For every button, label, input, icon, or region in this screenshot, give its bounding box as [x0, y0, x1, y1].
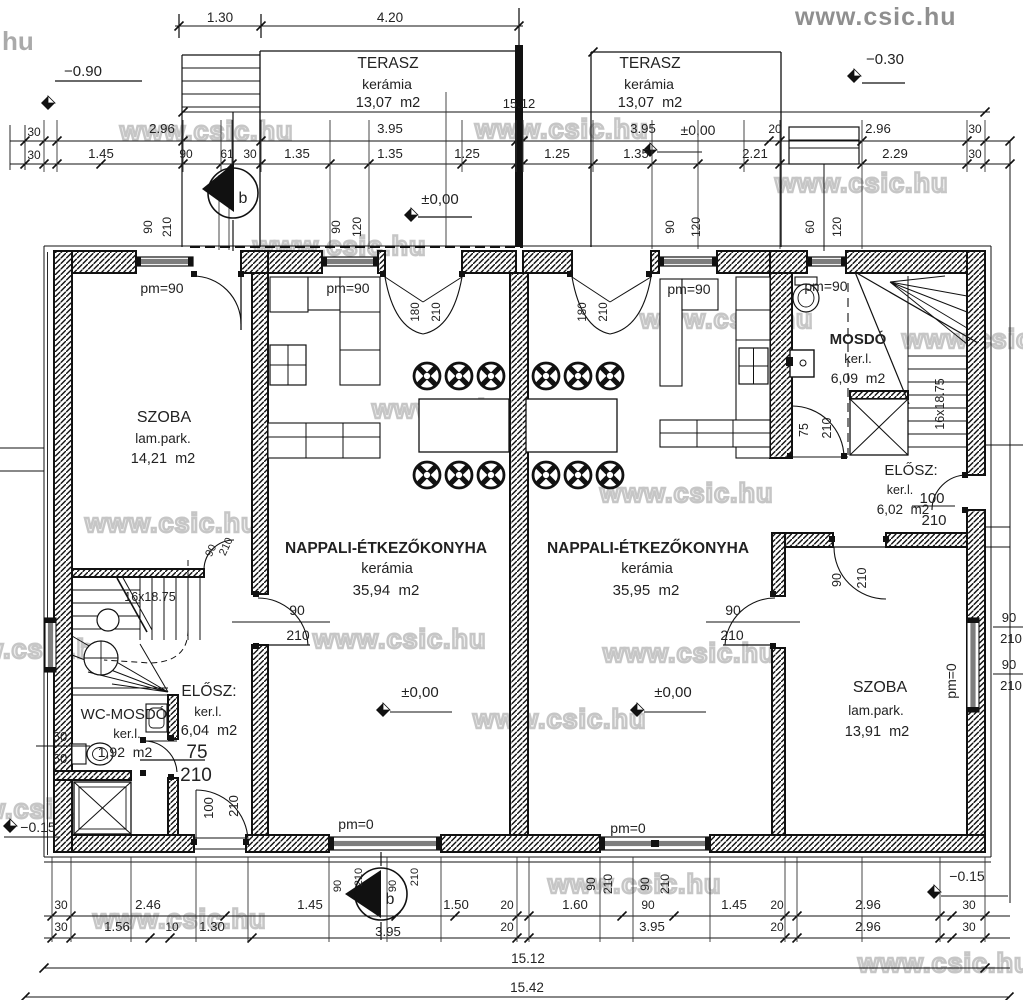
- svg-text:15.42: 15.42: [510, 980, 544, 995]
- svg-text:www.csic.hu: www.csic.hu: [312, 624, 487, 654]
- label TERASZ left: [356, 55, 421, 111]
- svg-text:ELŐSZ:: ELŐSZ:: [181, 683, 236, 700]
- wall kitchen/MOSDO right unit: [770, 273, 792, 458]
- svg-text:2.96: 2.96: [855, 919, 881, 934]
- svg-text:180: 180: [577, 302, 589, 321]
- svg-text:120: 120: [350, 217, 364, 237]
- wall WC east upper: [168, 695, 178, 739]
- svg-text:1.35: 1.35: [284, 146, 310, 161]
- stove left unit: [270, 345, 306, 385]
- dimension row B top: [10, 146, 1015, 169]
- door ELOSZ-NAPPALI left 90/210: [232, 598, 330, 645]
- svg-text:210: 210: [855, 568, 869, 589]
- svg-text:WC-MOSDÓ: WC-MOSDÓ: [81, 706, 168, 723]
- svg-text:ker.l.: ker.l.: [844, 351, 871, 366]
- svg-text:180: 180: [410, 302, 422, 321]
- svg-text:90: 90: [332, 880, 344, 892]
- svg-text:90: 90: [584, 877, 598, 891]
- level -0.30 top-right: [847, 51, 905, 83]
- wall SZOBA/NAPPALI upper: [252, 273, 268, 594]
- section trace dashed top: [190, 246, 523, 248]
- svg-text:13,91 m2: 13,91 m2: [845, 724, 910, 740]
- svg-text:TERASZ: TERASZ: [619, 55, 680, 72]
- svg-text:60: 60: [53, 729, 67, 744]
- dining table left: [419, 399, 509, 452]
- meeting mark on right bottom window: [651, 840, 659, 847]
- svg-text:120: 120: [830, 217, 844, 237]
- svg-text:210: 210: [1000, 678, 1022, 693]
- svg-text:pm=90: pm=90: [326, 280, 369, 296]
- svg-text:1.60: 1.60: [562, 897, 588, 912]
- washbasin left unit: [146, 704, 167, 732]
- washbasin right unit: [786, 350, 814, 377]
- svg-text:20: 20: [770, 898, 784, 912]
- svg-text:90: 90: [663, 220, 677, 234]
- door SZOBA from landing 90/210: [193, 273, 241, 330]
- svg-text:210: 210: [601, 874, 615, 894]
- label SZOBA right: [845, 679, 910, 740]
- svg-text:30: 30: [968, 122, 982, 136]
- svg-text:30: 30: [54, 920, 68, 934]
- svg-text:210: 210: [1000, 631, 1022, 646]
- svg-text:90: 90: [641, 898, 655, 912]
- svg-text:120: 120: [689, 217, 703, 237]
- svg-text:15.12: 15.12: [503, 96, 536, 111]
- entry stair top-left: [182, 55, 260, 247]
- svg-text:2.96: 2.96: [149, 121, 175, 136]
- svg-text:20: 20: [770, 920, 784, 934]
- svg-text:90: 90: [1002, 610, 1016, 625]
- level -0.15 left: [3, 819, 60, 837]
- svg-text:www.csic.hu: www.csic.hu: [901, 324, 1023, 354]
- level +-0,00 nappali right: [630, 684, 706, 717]
- svg-text:−0.15: −0.15: [20, 819, 56, 835]
- svg-text:pm=0: pm=0: [610, 820, 646, 836]
- svg-text:13,07 m2: 13,07 m2: [356, 95, 421, 111]
- svg-text:pm=0: pm=0: [338, 816, 374, 832]
- toilet WC left unit: [72, 743, 113, 765]
- level +-0,00 terrace left: [404, 191, 472, 222]
- svg-text:NAPPALI-ÉTKEZŐKONYHA: NAPPALI-ÉTKEZŐKONYHA: [547, 539, 749, 557]
- svg-text:MOSDÓ: MOSDÓ: [830, 330, 887, 348]
- svg-text:±0,00: ±0,00: [401, 684, 438, 701]
- svg-text:±0,00: ±0,00: [421, 191, 458, 208]
- svg-text:90: 90: [725, 602, 741, 618]
- right margin lines: [985, 141, 1023, 903]
- top wall window W3 pm=90: [659, 257, 717, 266]
- left margin end verticals: [10, 125, 25, 170]
- svg-text:20: 20: [500, 898, 514, 912]
- wall SZOBA/NAPPALI lower: [252, 645, 268, 835]
- top exterior wall segments: [54, 251, 136, 273]
- svg-text:1.56: 1.56: [104, 919, 130, 934]
- svg-text:15.12: 15.12: [511, 951, 545, 966]
- svg-text:kerámia: kerámia: [362, 76, 412, 92]
- level -0.15 right: [927, 868, 1008, 899]
- svg-text:60: 60: [803, 220, 817, 234]
- witness lines above top wall: [44, 120, 985, 172]
- svg-text:1,92 m2: 1,92 m2: [98, 744, 153, 760]
- svg-text:90: 90: [329, 220, 343, 234]
- svg-text:210: 210: [286, 627, 310, 643]
- svg-text:30: 30: [54, 898, 68, 912]
- counter/sofa left unit: [268, 423, 380, 458]
- svg-text:210: 210: [720, 627, 744, 643]
- svg-text:10: 10: [165, 920, 179, 934]
- svg-text:1.35: 1.35: [623, 146, 649, 161]
- svg-text:210: 210: [658, 874, 672, 894]
- svg-text:2.29: 2.29: [882, 146, 908, 161]
- svg-text:TERASZ: TERASZ: [357, 55, 418, 72]
- svg-text:35,95 m2: 35,95 m2: [613, 582, 680, 599]
- right wall window pm=0: [967, 618, 979, 712]
- section marker b bottom: [332, 852, 421, 940]
- door entry left unit 100/210: [196, 790, 248, 842]
- svg-text:16x18.75: 16x18.75: [933, 378, 947, 429]
- shower right unit: [850, 399, 908, 455]
- right exterior wall segments: [967, 251, 985, 475]
- svg-text:90: 90: [141, 220, 155, 234]
- svg-text:16x18.75: 16x18.75: [124, 590, 175, 604]
- svg-text:−0.30: −0.30: [866, 51, 904, 68]
- wall ELOSZ/SZOBA horizontal: [785, 533, 833, 547]
- door WC 75/210: [145, 741, 177, 772]
- svg-text:30: 30: [968, 147, 982, 161]
- svg-text:35,94 m2: 35,94 m2: [353, 582, 420, 599]
- svg-text:−0.15: −0.15: [949, 868, 985, 884]
- level -0.90 top-left: [41, 63, 142, 110]
- svg-text:lam.park.: lam.park.: [135, 431, 191, 446]
- door SZOBA-ELOSZ left 90/210: [203, 536, 235, 569]
- svg-text:ker.l.: ker.l.: [194, 704, 221, 719]
- svg-text:210: 210: [180, 765, 212, 786]
- left exterior wall: [54, 251, 72, 852]
- svg-text:210: 210: [160, 217, 174, 237]
- stair left unit: [72, 560, 204, 695]
- label door 75/210 big: [140, 742, 212, 786]
- svg-text:b: b: [386, 891, 395, 908]
- svg-text:6,09 m2: 6,09 m2: [831, 370, 886, 386]
- svg-text:www.csic.hu: www.csic.hu: [472, 704, 647, 734]
- level +-0,00 on row A: [643, 122, 716, 157]
- door jamb blocks: [140, 271, 968, 845]
- svg-text:1.35: 1.35: [377, 146, 403, 161]
- svg-text:90: 90: [1002, 657, 1016, 672]
- svg-text:210: 210: [820, 418, 834, 439]
- svg-text:3.95: 3.95: [639, 919, 665, 934]
- svg-text:3.95: 3.95: [375, 924, 401, 939]
- party wall divider above (terrace): [515, 45, 523, 247]
- svg-text:100: 100: [201, 797, 216, 819]
- kitchen cabinets left unit: [270, 277, 380, 385]
- svg-text:1.30: 1.30: [207, 10, 233, 25]
- label NAPPALI left: [285, 539, 487, 599]
- svg-text:pm=90: pm=90: [804, 278, 847, 294]
- bottom dim row 2: [44, 919, 1010, 943]
- svg-text:1.45: 1.45: [721, 897, 747, 912]
- right margin window dims: [993, 610, 1023, 693]
- svg-text:www.csic.hu: www.csic.hu: [602, 638, 777, 668]
- svg-text:www.csic.hu: www.csic.hu: [857, 948, 1023, 978]
- svg-text:www.csic.hu: www.csic.hu: [774, 168, 949, 198]
- svg-text:30: 30: [27, 125, 41, 139]
- svg-text:pm=0: pm=0: [943, 663, 959, 699]
- counter/sofa right unit: [660, 420, 770, 447]
- dashed partition MOSDO: [847, 283, 849, 455]
- door SZOBA right unit 90/210: [830, 547, 886, 599]
- svg-text:2.21: 2.21: [742, 146, 768, 161]
- svg-text:30: 30: [962, 920, 976, 934]
- svg-text:1.30: 1.30: [199, 919, 225, 934]
- top dimension 1.30 / 4.20: [175, 8, 524, 45]
- bottom window left pm=0: [329, 837, 441, 850]
- terrace right outline: [591, 51, 781, 53]
- svg-text:13,07 m2: 13,07 m2: [618, 95, 683, 111]
- french door left 180/210: [385, 277, 462, 334]
- svg-text:www.csic.hu: www.csic.hu: [474, 114, 649, 144]
- french door right 180/210: [572, 277, 651, 334]
- bottom window right pm=0: [600, 837, 710, 850]
- left wall stair window: [45, 618, 56, 672]
- svg-text:90: 90: [638, 877, 652, 891]
- svg-text:pm=90: pm=90: [667, 281, 710, 297]
- svg-text:30: 30: [27, 148, 41, 162]
- terrace left outline: [260, 50, 520, 52]
- chairs left unit: [414, 363, 504, 488]
- svg-text:90: 90: [179, 147, 193, 161]
- chairs right unit: [533, 363, 623, 488]
- label MOSDO: [830, 330, 887, 386]
- svg-text:20: 20: [500, 920, 514, 934]
- svg-text:pm=90: pm=90: [140, 280, 183, 296]
- svg-text:210: 210: [921, 512, 946, 529]
- svg-text:kerámia: kerámia: [624, 76, 674, 92]
- rotated window size labels above top wall: [141, 217, 844, 237]
- svg-text:4.20: 4.20: [377, 10, 403, 25]
- svg-text:1.25: 1.25: [544, 146, 570, 161]
- svg-text:www.csic.hu: www.csic.hu: [84, 508, 259, 538]
- svg-text:www.csic.hu: www.csic.hu: [547, 869, 722, 899]
- top wall window W1 pm=90: [136, 257, 193, 266]
- shower left unit: [74, 782, 131, 834]
- wall ELOSZ/SZOBA right unit west: [772, 533, 785, 596]
- top wall window W4 pm=90: [807, 257, 846, 266]
- svg-text:ker.l.: ker.l.: [113, 726, 140, 741]
- svg-text:2.96: 2.96: [855, 897, 881, 912]
- label ELOSZ left: [181, 683, 237, 739]
- svg-text:www.csic.hu: www.csic.hu: [599, 478, 774, 508]
- svg-text:1.45: 1.45: [297, 897, 323, 912]
- 15.12 overall dim line top: [179, 96, 991, 117]
- toilet MOSDO right unit: [793, 277, 819, 312]
- shower top band MOSDO: [850, 391, 908, 399]
- svg-text:lam.park.: lam.park.: [848, 703, 904, 718]
- wall WC/shower: [54, 771, 131, 780]
- exterior step right: [789, 127, 859, 251]
- svg-text:kerámia: kerámia: [621, 561, 674, 577]
- label NAPPALI right: [547, 539, 749, 599]
- svg-text:90: 90: [387, 880, 399, 892]
- pm=0 labels: [338, 663, 959, 836]
- svg-text:www.csic.hu: www.csic.hu: [794, 3, 957, 31]
- door ELOSZ-NAPPALI right 90/210: [706, 598, 800, 645]
- svg-text:210: 210: [431, 302, 443, 321]
- bottom exterior wall segments: [54, 835, 194, 852]
- svg-text:SZOBA: SZOBA: [137, 409, 192, 426]
- wall SZOBA south: [72, 569, 204, 577]
- svg-text:hu: hu: [2, 26, 34, 56]
- 60/60 labels left margin: [36, 729, 90, 766]
- central party wall: [510, 273, 528, 835]
- svg-text:b: b: [239, 190, 248, 207]
- section marker b top: [202, 112, 258, 251]
- dining table right: [526, 399, 617, 452]
- dimension row A top: [10, 121, 1015, 146]
- svg-text:210: 210: [598, 302, 610, 321]
- left margin stub lines mid: [0, 448, 44, 471]
- svg-text:30: 30: [962, 898, 976, 912]
- svg-text:90: 90: [289, 602, 305, 618]
- label SZOBA left: [131, 409, 196, 467]
- bottom dim row 4 15.42: [21, 980, 1014, 1000]
- pm=90 labels: [140, 278, 847, 297]
- svg-text:1.45: 1.45: [88, 146, 114, 161]
- label TERASZ right: [618, 55, 683, 111]
- label WC-MOSDO: [81, 706, 168, 760]
- svg-text:NAPPALI-ÉTKEZŐKONYHA: NAPPALI-ÉTKEZŐKONYHA: [285, 539, 487, 557]
- kitchen cabinets right unit: [660, 277, 770, 458]
- svg-text:kerámia: kerámia: [361, 561, 414, 577]
- rotated labels bottom middle: [584, 874, 672, 894]
- thin offset boundary: [44, 246, 991, 862]
- bottom dim row 3 15.12: [40, 951, 1011, 973]
- svg-text:2.46: 2.46: [135, 897, 161, 912]
- top wall window W2 pm=90: [322, 257, 378, 266]
- svg-text:1.50: 1.50: [443, 897, 469, 912]
- entry threshold left unit: [194, 837, 246, 839]
- bottom dim row 1: [44, 897, 1010, 921]
- svg-text:75: 75: [797, 423, 811, 437]
- svg-text:210: 210: [409, 868, 421, 886]
- svg-text:14,21 m2: 14,21 m2: [131, 451, 196, 467]
- door MOSDO 75/210: [785, 406, 848, 457]
- svg-text:3.95: 3.95: [377, 121, 403, 136]
- wall WC east lower: [168, 778, 178, 835]
- label ELOSZ right: [877, 462, 955, 529]
- door entry right unit 100/210 in right wall: [932, 475, 967, 510]
- svg-text:2.96: 2.96: [865, 121, 891, 136]
- svg-text:ker.l.: ker.l.: [887, 483, 913, 497]
- svg-text:210: 210: [226, 795, 241, 817]
- svg-text:±0,00: ±0,00: [654, 684, 691, 701]
- level +-0,00 nappali left: [376, 684, 452, 717]
- svg-text:210: 210: [353, 868, 365, 886]
- stove right unit: [739, 348, 768, 384]
- svg-text:1.25: 1.25: [454, 146, 480, 161]
- svg-text:ELŐSZ:: ELŐSZ:: [884, 462, 937, 479]
- svg-text:30: 30: [243, 147, 257, 161]
- stair right unit: [855, 272, 978, 455]
- svg-text:6,04 m2: 6,04 m2: [181, 723, 237, 739]
- svg-text:60: 60: [53, 751, 67, 766]
- svg-text:−0.90: −0.90: [64, 63, 102, 80]
- svg-text:90: 90: [830, 573, 844, 587]
- bottom witness lines: [52, 857, 985, 942]
- svg-text:SZOBA: SZOBA: [853, 679, 908, 696]
